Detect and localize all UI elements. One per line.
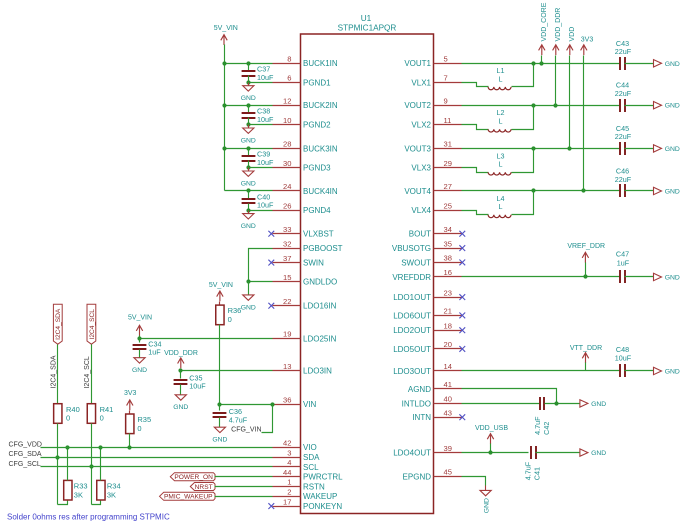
svg-text:L: L [499, 75, 503, 84]
net label I2C4_SCL (rotated) [84, 356, 91, 388]
svg-text:GND: GND [665, 275, 680, 282]
svg-text:22uF: 22uF [615, 175, 632, 184]
pin 41 AGND (U1 right) [408, 380, 462, 394]
svg-text:GND: GND [173, 404, 188, 411]
wire R36 to VIN [219, 325, 221, 405]
svg-text:30: 30 [283, 159, 291, 168]
svg-text:INTN: INTN [412, 413, 431, 422]
no-connect pin 22 [268, 303, 274, 309]
svg-text:VDD_CORE: VDD_CORE [541, 2, 548, 41]
svg-text:PWRCTRL: PWRCTRL [303, 473, 343, 482]
wire R35 to VIO line [129, 434, 131, 448]
svg-text:13: 13 [283, 362, 291, 371]
svg-text:18: 18 [444, 321, 452, 330]
wire C43 to GND flag [625, 63, 654, 65]
pin 38 SWOUT (U1 right) [401, 254, 461, 268]
svg-text:11: 11 [444, 116, 452, 125]
pin 43 INTN (U1 right) [412, 408, 461, 422]
pin 16 VREFDDR (U1 right) [392, 268, 461, 282]
wire LDO3OUT [462, 370, 621, 372]
svg-text:EPGND: EPGND [403, 472, 432, 481]
wire I2C4_SCL to R41 [91, 345, 93, 404]
svg-text:45: 45 [444, 468, 452, 477]
svg-text:10uF: 10uF [257, 115, 274, 124]
inductor L1 L [488, 66, 511, 90]
ground GND below C35 [173, 395, 188, 411]
wire PGND row C38 [246, 122, 272, 126]
svg-text:GND: GND [241, 137, 256, 144]
svg-text:VIO: VIO [303, 443, 317, 452]
wire R34 top to CFG_VDD [98, 445, 102, 480]
wire C46 to GND flag [625, 190, 654, 192]
wire CFG_SCL [41, 466, 273, 468]
svg-text:AGND: AGND [408, 385, 431, 394]
svg-text:BUCK1IN: BUCK1IN [303, 59, 338, 68]
svg-text:R41: R41 [100, 405, 114, 414]
svg-text:VLX1: VLX1 [411, 78, 431, 87]
pin 36 VIN (U1 left) [273, 395, 317, 409]
svg-text:4.7uF: 4.7uF [533, 416, 542, 435]
wire CFG_VDD [41, 445, 273, 449]
pin 28 BUCK3IN (U1 left) [273, 140, 338, 154]
svg-text:GND: GND [212, 437, 227, 444]
svg-text:LDO5OUT: LDO5OUT [393, 345, 431, 354]
svg-text:SWIN: SWIN [303, 259, 324, 268]
no-connect pin 33 [268, 231, 274, 237]
pin 17 PONKEYN (U1 left) [273, 497, 343, 511]
svg-text:BUCK3IN: BUCK3IN [303, 144, 338, 153]
svg-text:L: L [499, 160, 503, 169]
capacitor C47 1uF [616, 250, 630, 284]
wire LDO25IN [137, 336, 272, 340]
svg-text:LDO1OUT: LDO1OUT [393, 293, 431, 302]
wire VDD_DDR to LDO3IN node [180, 369, 182, 371]
svg-text:LDO16IN: LDO16IN [303, 302, 337, 311]
wire GNDLDO [246, 279, 272, 283]
svg-text:3: 3 [287, 448, 291, 457]
wire R41 down to jog [89, 424, 93, 505]
pin 31 VOUT3 (U1 right) [404, 140, 461, 154]
wire PGND row C40 [246, 208, 272, 212]
svg-text:I2C4_SCL: I2C4_SCL [84, 356, 91, 388]
svg-text:VOUT1: VOUT1 [404, 59, 431, 68]
wire CFG_VIN branch [262, 405, 273, 433]
svg-text:37: 37 [283, 254, 291, 263]
svg-text:GND: GND [241, 95, 256, 102]
ground GND below C36 [212, 427, 227, 443]
svg-text:I2C4_SCL: I2C4_SCL [89, 309, 96, 340]
svg-text:GND: GND [241, 180, 256, 187]
ground GND flag C43 [654, 60, 680, 68]
ground GND flag C44 [654, 102, 680, 110]
resistor R36 0 [216, 302, 242, 325]
power symbol VDD_CORE [539, 2, 548, 55]
svg-text:C47: C47 [616, 250, 629, 259]
svg-text:VDD_DDR: VDD_DDR [164, 350, 198, 357]
svg-text:7: 7 [444, 74, 448, 83]
power symbol 5V_VIN (above C34) [128, 315, 152, 336]
svg-text:VLX4: VLX4 [411, 206, 431, 215]
capacitor C38 10uF [242, 106, 274, 125]
svg-text:10uF: 10uF [257, 158, 274, 167]
net label CFG_SDA [9, 451, 42, 458]
pin 29 VLX3 (U1 right) [411, 159, 461, 173]
pin 6 PGND1 (U1 left) [273, 74, 332, 88]
svg-text:INTLDO: INTLDO [402, 399, 431, 408]
svg-text:VDD_DDR: VDD_DDR [555, 8, 562, 42]
svg-text:LDO3IN: LDO3IN [303, 367, 332, 376]
pin 33 VLXBST (U1 left) [273, 225, 334, 239]
svg-text:12: 12 [283, 96, 291, 105]
svg-text:9: 9 [444, 96, 448, 105]
wire 5V_VIN arrow to LDO25IN node [139, 336, 141, 339]
pin 26 PGND4 (U1 left) [273, 202, 332, 216]
power symbol 5V_VIN (top left) [214, 25, 238, 45]
svg-text:22uF: 22uF [615, 89, 632, 98]
svg-text:STPMIC1APQR: STPMIC1APQR [338, 23, 397, 32]
wire C47 to GND flag [625, 276, 654, 278]
svg-text:10uF: 10uF [189, 382, 206, 391]
svg-text:10uF: 10uF [257, 201, 274, 210]
svg-text:CFG_VIN: CFG_VIN [231, 426, 261, 433]
pin 10 PGND2 (U1 left) [273, 116, 332, 130]
svg-text:4.7uF: 4.7uF [524, 461, 533, 480]
pin 3 SDA (U1 left) [273, 448, 321, 462]
wire LDO3IN [178, 368, 272, 372]
svg-text:10: 10 [283, 116, 291, 125]
svg-text:R34: R34 [107, 482, 121, 491]
wire EPGND [462, 477, 486, 486]
no-connect pin 43 [459, 414, 465, 420]
power symbol VDD [567, 27, 576, 55]
ground GND below EPGND (rotated) [480, 486, 491, 514]
wire BUCK3IN feed [222, 146, 272, 150]
wire jog to R34 bottom [92, 501, 101, 505]
pin 13 LDO3IN (U1 left) [273, 362, 333, 376]
wire PGBOOST to GNDLDO [249, 249, 273, 282]
wire NRST to RSTN [215, 486, 273, 488]
wire VTT_DDR to node [585, 363, 587, 371]
svg-text:20: 20 [444, 340, 452, 349]
svg-text:GND: GND [665, 189, 680, 196]
svg-text:R36: R36 [228, 306, 242, 315]
power symbol VREF_DDR [567, 243, 605, 263]
wire BUCK2IN feed [222, 103, 272, 107]
no-connect pin 37 [268, 260, 274, 266]
svg-text:LDO3OUT: LDO3OUT [393, 367, 431, 376]
svg-text:LDO25IN: LDO25IN [303, 334, 337, 343]
svg-text:PGND2: PGND2 [303, 121, 331, 130]
svg-text:3K: 3K [107, 490, 116, 499]
wire inductor L4 to VOUT [512, 191, 534, 215]
no-connect pin 23 [459, 294, 465, 300]
svg-text:16: 16 [444, 268, 452, 277]
wire LDO4OUT [462, 450, 529, 454]
net label I2C4_SDA (rotated) [51, 355, 58, 388]
pin 19 LDO25IN (U1 left) [273, 330, 337, 344]
wire AGND [462, 389, 557, 404]
svg-text:BUCK4IN: BUCK4IN [303, 187, 338, 196]
net label CFG_VIN [231, 426, 261, 433]
svg-text:4.7uF: 4.7uF [229, 415, 248, 424]
ground GND flag C48 [654, 367, 680, 375]
svg-text:42: 42 [283, 439, 291, 448]
svg-text:24: 24 [283, 182, 291, 191]
svg-text:15: 15 [283, 273, 291, 282]
svg-text:22: 22 [283, 297, 291, 306]
pin 14 LDO3OUT (U1 right) [393, 362, 461, 376]
global label PMIC_WAKEUP [160, 492, 216, 500]
svg-text:0: 0 [137, 424, 141, 433]
svg-text:PGND3: PGND3 [303, 164, 331, 173]
svg-text:U1: U1 [361, 14, 372, 23]
pin 5 VOUT1 (U1 right) [404, 55, 461, 69]
pin 30 PGND3 (U1 left) [273, 159, 332, 173]
capacitor C44 22uF [615, 81, 632, 112]
wire VDD_USB to node [490, 444, 492, 453]
svg-text:R35: R35 [137, 415, 151, 424]
capacitor C34 1uF [133, 339, 162, 358]
wire VREFDDR [462, 274, 621, 278]
wire C45 to GND flag [625, 148, 654, 150]
ground GND below C34 [132, 358, 147, 374]
wire VOUT net L1 row [462, 61, 621, 65]
pin 27 VOUT4 (U1 right) [404, 182, 461, 196]
svg-text:31: 31 [444, 140, 452, 149]
svg-text:43: 43 [444, 408, 452, 417]
svg-text:5: 5 [444, 55, 448, 64]
capacitor C46 22uF [615, 167, 632, 198]
pin 39 LDO4OUT (U1 right) [393, 444, 461, 458]
svg-text:SWOUT: SWOUT [401, 258, 431, 267]
wire PGND row C39 [246, 165, 272, 169]
wire VDD_CORE rail [541, 56, 543, 64]
pin 1 RSTN (U1 left) [273, 478, 326, 492]
pin 9 VOUT2 (U1 right) [404, 96, 461, 110]
svg-text:LDO6OUT: LDO6OUT [393, 311, 431, 320]
wire I2C4_SDA to R40 [57, 345, 59, 404]
pin 15 GNDLDO (U1 left) [273, 273, 338, 287]
global label NRST [190, 483, 215, 491]
resistor R41 0 [87, 404, 113, 424]
svg-text:GND: GND [132, 367, 147, 374]
svg-text:C41: C41 [533, 467, 542, 480]
svg-text:5V_VIN: 5V_VIN [128, 315, 152, 322]
svg-text:VTT_DDR: VTT_DDR [570, 345, 602, 352]
svg-text:21: 21 [444, 307, 452, 316]
svg-text:I2C4_SDA: I2C4_SDA [55, 308, 62, 340]
pin 25 VLX4 (U1 right) [411, 202, 461, 216]
ground GND below C40 [241, 211, 256, 231]
svg-text:GND: GND [665, 103, 680, 110]
svg-text:10uF: 10uF [615, 354, 632, 363]
svg-text:GND: GND [591, 401, 606, 408]
svg-text:C48: C48 [616, 345, 629, 354]
pin 11 VLX2 (U1 right) [411, 116, 461, 130]
svg-text:1: 1 [287, 478, 291, 487]
inductor L4 L [488, 194, 511, 218]
pin 18 LDO2OUT (U1 right) [393, 321, 461, 335]
power symbol 3V3 [581, 37, 594, 56]
svg-text:1uF: 1uF [148, 348, 161, 357]
svg-text:VOUT2: VOUT2 [404, 101, 431, 110]
svg-text:RSTN: RSTN [303, 482, 325, 491]
no-connect pin 18 [459, 327, 465, 333]
svg-text:0: 0 [228, 315, 232, 324]
svg-text:GND: GND [591, 450, 606, 457]
svg-text:19: 19 [283, 330, 291, 339]
svg-text:GND: GND [241, 223, 256, 230]
ground GND flag C45 [654, 145, 680, 153]
svg-text:VDD: VDD [569, 27, 576, 42]
pin 45 EPGND (U1 right) [403, 468, 462, 482]
svg-text:40: 40 [444, 395, 452, 404]
ground GND flag C42 [580, 400, 606, 408]
svg-text:VREFDDR: VREFDDR [392, 273, 431, 282]
svg-text:PGND4: PGND4 [303, 206, 331, 215]
no-connect pin 21 [459, 313, 465, 319]
svg-text:22uF: 22uF [615, 132, 632, 141]
no-connect pin 20 [459, 346, 465, 352]
svg-text:R33: R33 [74, 482, 88, 491]
svg-text:BOUT: BOUT [409, 230, 431, 239]
svg-text:VLXBST: VLXBST [303, 230, 334, 239]
pin 32 PGBOOST (U1 left) [273, 239, 343, 253]
svg-text:BUCK2IN: BUCK2IN [303, 101, 338, 110]
svg-text:GNDLDO: GNDLDO [303, 278, 337, 287]
wire VOUT net L4 row [462, 188, 621, 192]
svg-text:GND: GND [483, 498, 490, 513]
svg-text:VREF_DDR: VREF_DDR [567, 243, 605, 250]
svg-text:C42: C42 [542, 422, 551, 435]
svg-text:44: 44 [283, 468, 291, 477]
svg-text:WAKEUP: WAKEUP [303, 492, 337, 501]
IC U1 STPMIC1APQR body [301, 14, 434, 514]
wire BUCK4IN feed [225, 188, 273, 192]
no-connect pin 35 [459, 245, 465, 251]
svg-text:CFG_SDA: CFG_SDA [9, 451, 42, 458]
wire VOUT net L2 row [462, 103, 621, 107]
pin 42 VIO (U1 left) [273, 439, 317, 453]
inductor L2 L [488, 108, 511, 132]
svg-text:3V3: 3V3 [124, 390, 137, 397]
capacitor C37 10uF [242, 64, 274, 83]
svg-text:41: 41 [444, 380, 452, 389]
power symbol VTT_DDR [570, 345, 602, 363]
svg-text:34: 34 [444, 225, 452, 234]
global label I2C4_SCL [87, 304, 96, 344]
svg-text:28: 28 [283, 140, 291, 149]
capacitor C36 4.7uF [213, 405, 248, 428]
pin 4 SCL (U1 left) [273, 458, 320, 472]
ground GND flag C46 [654, 187, 680, 195]
wire VDD rail [569, 56, 571, 149]
wire C48 to GND flag [625, 370, 654, 372]
wire VLX to inductor L2 [462, 125, 489, 130]
svg-text:CFG_VDD: CFG_VDD [9, 441, 42, 448]
pin 2 WAKEUP (U1 left) [273, 488, 338, 502]
svg-text:5V_VIN: 5V_VIN [214, 25, 238, 32]
svg-text:PMIC_WAKEUP: PMIC_WAKEUP [164, 494, 213, 501]
wire VIN [217, 402, 274, 406]
wire VREF_DDR to node [585, 263, 587, 277]
pin 37 SWIN (U1 left) [273, 254, 325, 268]
svg-text:GND: GND [665, 146, 680, 153]
wire 3V3 rail [583, 56, 585, 191]
svg-text:L: L [499, 116, 503, 125]
svg-text:33: 33 [283, 225, 291, 234]
svg-text:35: 35 [444, 239, 452, 248]
pin 34 BOUT (U1 right) [409, 225, 462, 239]
svg-text:VLX3: VLX3 [411, 164, 431, 173]
global label I2C4_SDA [53, 304, 62, 344]
svg-text:6: 6 [287, 74, 291, 83]
capacitor C41 4.7uF [524, 446, 542, 480]
net label CFG_VDD [9, 441, 42, 448]
svg-text:0: 0 [66, 414, 70, 423]
svg-text:Solder 0ohms res after program: Solder 0ohms res after programming STPMI… [7, 512, 170, 521]
svg-text:R40: R40 [66, 405, 80, 414]
ground GND flag C47 [654, 273, 680, 281]
svg-text:32: 32 [283, 239, 291, 248]
svg-text:26: 26 [283, 202, 291, 211]
wire inductor L2 to VOUT [512, 106, 534, 130]
no-connect pin 17 [268, 503, 274, 509]
pin 23 LDO1OUT (U1 right) [393, 288, 461, 302]
svg-text:GND: GND [241, 304, 256, 311]
svg-text:36: 36 [283, 395, 291, 404]
resistor R40 0 [54, 404, 80, 424]
wire VOUT net L3 row [462, 146, 621, 150]
svg-text:POWER_ON: POWER_ON [174, 474, 213, 481]
svg-text:SDA: SDA [303, 453, 320, 462]
power symbol 3V3 (above R35) [124, 390, 137, 410]
svg-text:22uF: 22uF [615, 47, 632, 56]
svg-text:4: 4 [287, 458, 291, 467]
svg-text:VOUT4: VOUT4 [404, 187, 431, 196]
power symbol VDD_USB [475, 425, 508, 444]
power symbol VDD_DDR [164, 350, 198, 368]
resistor R34 3K [97, 480, 121, 500]
wire VLX to inductor L1 [462, 83, 489, 87]
wire 5V_VIN vertical bus [224, 45, 226, 191]
global label POWER_ON [170, 473, 215, 481]
svg-text:NRST: NRST [195, 484, 213, 491]
pin 40 INTLDO (U1 right) [402, 395, 462, 409]
ground GND below C38 [241, 125, 256, 145]
wire R40 down to jog [55, 424, 59, 505]
resistor R35 0 [126, 411, 152, 434]
no-connect pin 38 [459, 260, 465, 266]
svg-text:VLX2: VLX2 [411, 121, 431, 130]
pin 12 BUCK2IN (U1 left) [273, 96, 338, 110]
svg-text:3V3: 3V3 [581, 37, 594, 44]
svg-text:27: 27 [444, 182, 452, 191]
svg-text:PONKEYN: PONKEYN [303, 502, 342, 511]
svg-text:SCL: SCL [303, 463, 319, 472]
svg-text:L: L [499, 202, 503, 211]
capacitor C39 10uF [242, 149, 274, 168]
capacitor C43 22uF [615, 39, 632, 70]
svg-text:17: 17 [283, 497, 291, 506]
wire C42 to GND flag [545, 401, 580, 405]
pin 8 BUCK1IN (U1 left) [273, 55, 338, 69]
svg-text:LDO4OUT: LDO4OUT [393, 449, 431, 458]
svg-text:14: 14 [444, 362, 452, 371]
svg-text:PGBOOST: PGBOOST [303, 244, 343, 253]
capacitor C40 10uF [242, 191, 274, 211]
wire VDD_DDR rail [555, 56, 557, 106]
